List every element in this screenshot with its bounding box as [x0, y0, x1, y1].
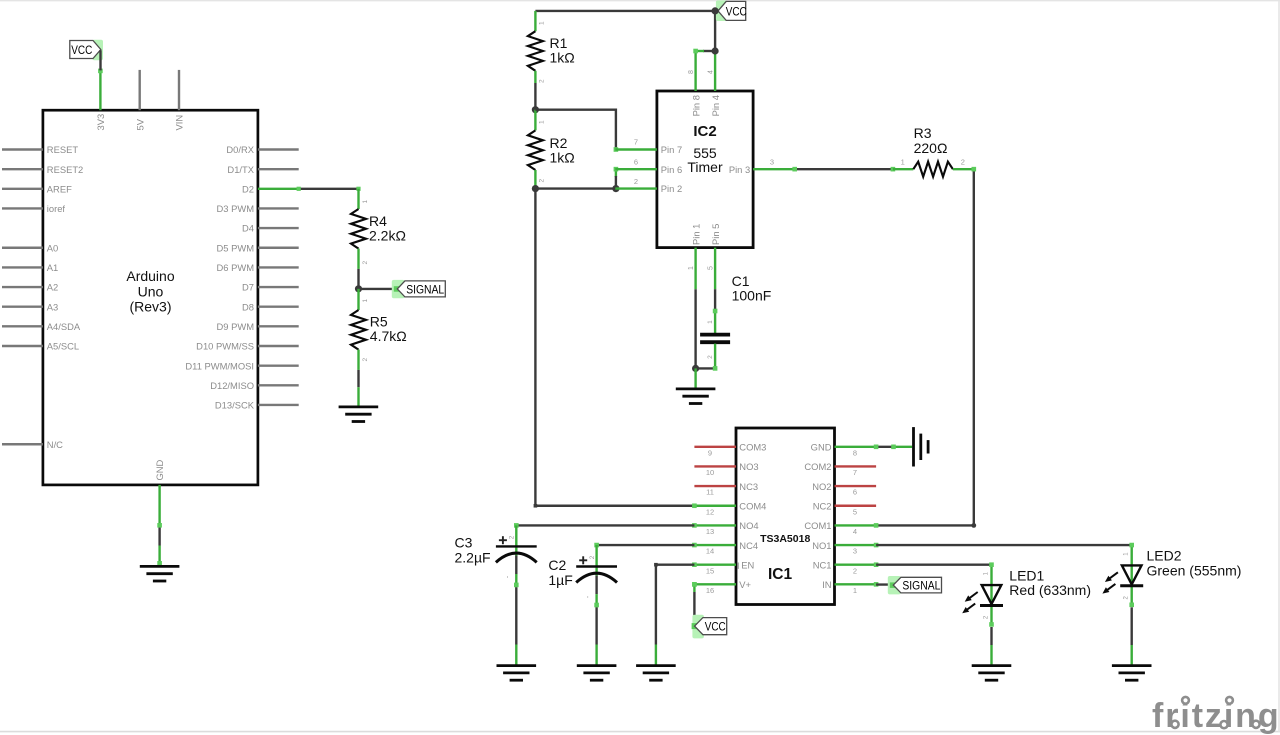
ground (IC1 GND, rotated) — [912, 427, 915, 466]
svg-text:D9 PWM: D9 PWM — [217, 321, 255, 332]
svg-text:D5 PWM: D5 PWM — [217, 242, 255, 253]
capacitor C3 2.2µF (polarized) — [455, 525, 537, 587]
Arduino pin D0/RX — [226, 144, 298, 155]
resistor R1 1kΩ — [528, 11, 575, 83]
IC1 pin 11 NC3 — [694, 481, 758, 497]
svg-text:COM3: COM3 — [739, 442, 766, 453]
svg-text:2: 2 — [853, 566, 857, 575]
power flag VCC (555) — [716, 0, 747, 21]
wire IC1 GND to ground — [876, 446, 893, 448]
wire D2 to R4 — [299, 188, 359, 190]
svg-text:A1: A1 — [47, 262, 58, 273]
wire R4 to node SIGNAL — [357, 269, 359, 289]
svg-text:D8: D8 — [242, 301, 254, 312]
LED1 Red (633nm) — [962, 562, 1091, 626]
svg-text:VIN: VIN — [174, 115, 185, 131]
svg-text:A2: A2 — [47, 282, 58, 293]
svg-text:-: - — [585, 595, 592, 598]
svg-text:1: 1 — [853, 586, 857, 595]
svg-text:D6 PWM: D6 PWM — [217, 262, 255, 273]
svg-text:R2: R2 — [550, 135, 568, 151]
svg-text:14: 14 — [706, 547, 714, 556]
svg-text:2: 2 — [1124, 595, 1130, 599]
wire IC1 IN to SIGNAL flag — [876, 583, 893, 585]
Arduino pin A2 — [2, 282, 58, 293]
op-amp/timer IC2 555 body — [657, 91, 753, 248]
svg-text:220Ω: 220Ω — [914, 140, 948, 156]
svg-text:D7: D7 — [242, 282, 254, 293]
svg-text:VCC: VCC — [726, 6, 747, 18]
IC2 Pin 2 — [615, 177, 682, 194]
Arduino pin N/C — [2, 439, 63, 450]
wire 555 Pin 5 to C1 — [714, 289, 716, 310]
power flag VCC (IC1) — [692, 615, 727, 639]
Arduino pin AREF — [2, 183, 72, 194]
svg-text:2: 2 — [983, 615, 989, 619]
IC1 pin 10 NO3 — [694, 461, 758, 477]
svg-text:D1/TX: D1/TX — [227, 164, 254, 175]
Arduino pin 5V — [134, 70, 145, 131]
svg-text:NC1: NC1 — [813, 559, 832, 570]
Arduino pin ioref — [2, 203, 65, 214]
svg-text:NO4: NO4 — [739, 520, 758, 531]
wire IC1 V+ to VCC — [693, 584, 695, 592]
svg-text:IC2: IC2 — [693, 123, 716, 140]
IC1 pin 16 V+ — [692, 579, 751, 595]
svg-text:-: - — [505, 575, 512, 578]
IC1 pin 15 EN — [692, 559, 754, 575]
wire R1 to R2 — [534, 83, 536, 110]
IC2 Pin 4 — [707, 51, 721, 116]
ground (C2) — [577, 664, 617, 667]
Arduino pin D9 PWM — [217, 321, 299, 332]
svg-text:A0: A0 — [47, 242, 58, 253]
IC1 pin 13 NO4 — [692, 520, 758, 536]
svg-text:D10 PWM/SS: D10 PWM/SS — [196, 341, 254, 352]
IC1 pin 2 NC1 — [813, 559, 879, 575]
IC2 Pin 3 — [729, 157, 795, 174]
Arduino pin D5 PWM — [217, 242, 299, 253]
Arduino pin D13/SCK — [215, 400, 299, 411]
svg-text:C2: C2 — [548, 557, 566, 573]
wire R2 bottom to 555 Pin 2 — [535, 187, 615, 189]
Arduino pin A5/SCL — [2, 341, 79, 352]
resistor R4 2.2kΩ — [351, 189, 406, 269]
IC2 Pin 1 — [688, 224, 702, 290]
ground (555/C1) — [676, 387, 716, 390]
svg-text:1kΩ: 1kΩ — [550, 150, 575, 166]
Arduino pin A3 — [2, 301, 58, 312]
svg-text:SIGNAL: SIGNAL — [902, 581, 941, 593]
svg-text:1: 1 — [901, 157, 905, 166]
net label SIGNAL (right) — [888, 576, 942, 594]
svg-text:12: 12 — [706, 507, 714, 516]
svg-text:V+: V+ — [739, 579, 751, 590]
svg-text:8: 8 — [688, 70, 695, 74]
wire 555 Pin 6 down to Pin 2 net — [615, 169, 617, 177]
wire R2 node to IC1 COM4 — [535, 189, 694, 506]
svg-text:A5/SCL: A5/SCL — [47, 341, 79, 352]
svg-text:5: 5 — [853, 507, 857, 516]
svg-text:8: 8 — [853, 448, 857, 457]
Arduino pin D6 PWM — [217, 262, 299, 273]
svg-text:NO3: NO3 — [739, 461, 758, 472]
ground (LED1) — [972, 664, 1012, 667]
svg-text:R3: R3 — [914, 125, 932, 141]
svg-text:1: 1 — [362, 299, 369, 303]
svg-text:LED1: LED1 — [1009, 567, 1044, 583]
IC1 pin 7 COM2 — [804, 461, 876, 477]
power flag VCC (top-left) — [70, 40, 103, 61]
Arduino Uno (Rev3) module body — [43, 110, 258, 485]
junction Pin6/Pin2 — [612, 185, 619, 192]
wire R3 to IC1 COM1 — [876, 169, 974, 525]
capacitor C1 100nF — [700, 273, 771, 369]
svg-text:Arduino: Arduino — [126, 268, 174, 284]
wire GND to ground — [158, 525, 160, 545]
Arduino pin D12/MISO — [210, 380, 298, 391]
svg-text:1µF: 1µF — [548, 572, 572, 588]
svg-text:NC4: NC4 — [739, 540, 758, 551]
wire VCC flag to 3V3 — [99, 50, 101, 70]
svg-text:R5: R5 — [370, 313, 388, 329]
svg-text:4: 4 — [707, 70, 714, 74]
Arduino pin D1/TX — [227, 164, 298, 175]
ground (C3) — [497, 664, 537, 667]
wire LED2 to ground — [1130, 607, 1132, 645]
IC2 Pin 6 — [615, 157, 682, 174]
svg-text:1: 1 — [539, 21, 546, 25]
wire C1 to ground node — [696, 367, 716, 369]
svg-text:2: 2 — [634, 177, 638, 186]
IC1 pin 1 IN — [822, 579, 878, 595]
svg-text:2: 2 — [362, 261, 369, 265]
svg-text:2: 2 — [707, 355, 714, 359]
svg-text:5: 5 — [707, 266, 714, 270]
svg-text:1: 1 — [688, 266, 695, 270]
analog switch IC1 TS3A5018 body — [736, 428, 835, 605]
svg-text:7: 7 — [853, 468, 857, 477]
svg-text:2.2kΩ: 2.2kΩ — [369, 228, 406, 244]
wire junction to ground — [694, 368, 696, 388]
wire LED1 to ground — [990, 627, 992, 645]
svg-text:ioref: ioref — [47, 203, 66, 214]
IC2 Pin 8 — [688, 51, 702, 116]
IC1 pin 3 NO1 — [812, 540, 878, 556]
fritzing watermark — [1152, 694, 1280, 735]
svg-text:D3 PWM: D3 PWM — [217, 203, 255, 214]
svg-text:NC3: NC3 — [739, 481, 758, 492]
svg-text:NO1: NO1 — [812, 540, 831, 551]
svg-text:COM2: COM2 — [804, 461, 831, 472]
wire R1/R2 node to 555 Pin 7 — [535, 110, 616, 150]
svg-text:Pin 5: Pin 5 — [710, 224, 721, 245]
Arduino pin D10 PWM/SS — [196, 341, 299, 352]
svg-text:TS3A5018: TS3A5018 — [760, 533, 810, 545]
Arduino pin VIN — [174, 70, 185, 131]
ground (R5) — [339, 405, 379, 408]
ground (LED2) — [1112, 664, 1152, 667]
svg-text:5V: 5V — [134, 118, 145, 130]
svg-text:15: 15 — [706, 566, 714, 575]
wire VCC to 555 pins 8/4 — [714, 11, 716, 51]
svg-text:2: 2 — [961, 157, 965, 166]
svg-text:7: 7 — [634, 138, 638, 147]
svg-text:GND: GND — [154, 459, 165, 480]
Arduino pin D4 — [242, 223, 299, 234]
IC1 pin 5 NC2 — [813, 500, 876, 516]
wire 555 Pin 1 down — [694, 289, 696, 368]
svg-text:D0/RX: D0/RX — [226, 144, 254, 155]
Arduino pin A0 — [2, 242, 58, 253]
svg-text:13: 13 — [706, 527, 714, 536]
Arduino pin D8 — [242, 301, 299, 312]
wire IC1 NC4 to C2 — [598, 544, 695, 546]
svg-text:Timer: Timer — [687, 159, 723, 175]
svg-text:N/C: N/C — [47, 439, 63, 450]
svg-text:Pin 8: Pin 8 — [690, 95, 701, 116]
svg-text:1: 1 — [707, 320, 714, 324]
svg-text:2: 2 — [510, 535, 516, 539]
svg-text:Uno: Uno — [138, 283, 164, 299]
net label SIGNAL (left) — [392, 280, 446, 298]
IC1 pin 14 NC4 — [692, 540, 758, 556]
svg-text:2: 2 — [539, 179, 546, 183]
svg-text:3: 3 — [770, 157, 774, 166]
svg-text:NO2: NO2 — [812, 481, 831, 492]
svg-text:6: 6 — [853, 488, 857, 497]
svg-text:1: 1 — [362, 200, 369, 204]
LED2 Green (555nm) — [1102, 543, 1241, 607]
svg-text:D12/MISO: D12/MISO — [210, 380, 254, 391]
svg-text:10: 10 — [706, 468, 714, 477]
svg-text:IC1: IC1 — [768, 566, 793, 583]
Arduino pin GND — [154, 459, 165, 525]
junction pin8/pin4 — [712, 47, 719, 54]
Arduino pin A4/SDA — [2, 321, 81, 332]
svg-text:16: 16 — [706, 586, 714, 595]
svg-text:2.2µF: 2.2µF — [455, 549, 491, 565]
Arduino pin RESET2 — [2, 164, 83, 175]
svg-text:VCC: VCC — [71, 45, 92, 57]
svg-text:RESET: RESET — [47, 144, 79, 155]
svg-text:RESET2: RESET2 — [47, 164, 83, 175]
svg-text:A4/SDA: A4/SDA — [47, 321, 81, 332]
Arduino pin D2 — [242, 183, 299, 194]
svg-text:NC2: NC2 — [813, 500, 832, 511]
Arduino pin 3V3 — [95, 69, 106, 131]
svg-text:4.7kΩ: 4.7kΩ — [370, 328, 407, 344]
wire IC1 EN to ground — [656, 565, 695, 645]
resistor R5 4.7kΩ — [351, 289, 407, 370]
svg-text:3V3: 3V3 — [95, 114, 106, 131]
svg-text:fritzing: fritzing — [1152, 697, 1280, 735]
Arduino pin D11 PWM/MOSI — [185, 360, 298, 371]
junction VCC rail — [712, 7, 719, 14]
svg-text:3: 3 — [853, 547, 857, 556]
svg-text:A3: A3 — [47, 301, 58, 312]
svg-text:(Rev3): (Rev3) — [129, 299, 171, 315]
svg-text:9: 9 — [708, 448, 712, 457]
Arduino pin D7 — [242, 282, 299, 293]
svg-text:Pin 2: Pin 2 — [661, 183, 682, 194]
svg-text:6: 6 — [634, 157, 638, 166]
svg-text:2: 2 — [362, 358, 369, 362]
svg-text:Pin 7: Pin 7 — [661, 144, 682, 155]
wire VCC rail top — [535, 10, 715, 12]
wire C2 to ground — [595, 607, 597, 644]
IC1 pin 12 COM4 — [692, 500, 766, 516]
junction R4/R5/SIGNAL — [355, 285, 362, 292]
IC1 pin 6 NO2 — [812, 481, 876, 497]
wire junction to SIGNAL flag — [359, 288, 398, 290]
svg-text:AREF: AREF — [47, 183, 72, 194]
svg-text:Pin 1: Pin 1 — [690, 224, 701, 245]
svg-text:LED2: LED2 — [1147, 548, 1182, 564]
IC2 Pin 5 — [707, 224, 721, 290]
svg-text:D4: D4 — [242, 223, 254, 234]
svg-text:D11 PWM/MOSI: D11 PWM/MOSI — [185, 360, 254, 371]
resistor R2 1kΩ — [528, 110, 575, 189]
Arduino pin A1 — [2, 262, 58, 273]
svg-text:11: 11 — [706, 488, 714, 497]
svg-text:SIGNAL: SIGNAL — [406, 284, 445, 296]
svg-text:100nF: 100nF — [732, 288, 772, 304]
svg-text:C1: C1 — [732, 273, 750, 289]
wire IC1 NO4 to C3 — [518, 524, 695, 526]
svg-text:Pin 6: Pin 6 — [661, 164, 682, 175]
svg-text:D13/SCK: D13/SCK — [215, 400, 255, 411]
junction R1/R2 — [532, 106, 539, 113]
ground (Arduino GND) — [140, 565, 180, 568]
svg-text:4: 4 — [853, 527, 857, 536]
svg-text:1kΩ: 1kΩ — [550, 50, 575, 66]
svg-text:VCC: VCC — [705, 622, 726, 634]
svg-text:EN: EN — [741, 559, 754, 570]
svg-text:Green (555nm): Green (555nm) — [1147, 562, 1242, 578]
IC1 pin 8 GND — [811, 442, 876, 458]
wire C3 to ground — [515, 587, 517, 644]
junction Pin1/C1/ground — [692, 365, 699, 372]
Arduino pin D3 PWM — [217, 203, 299, 214]
svg-text:1: 1 — [983, 571, 989, 575]
wire IC1 NC1 to LED1 — [876, 564, 991, 566]
IC1 pin 4 COM1 — [804, 520, 878, 536]
svg-text:GND: GND — [811, 442, 832, 453]
svg-text:C3: C3 — [455, 535, 473, 551]
ground (EN) — [636, 664, 676, 667]
svg-text:Pin 3: Pin 3 — [729, 164, 750, 175]
svg-text:Red (633nm): Red (633nm) — [1009, 582, 1091, 598]
Arduino pin RESET — [2, 144, 78, 155]
svg-text:2: 2 — [539, 79, 546, 83]
svg-text:COM1: COM1 — [804, 520, 831, 531]
svg-text:Pin 4: Pin 4 — [710, 95, 721, 116]
svg-text:IN: IN — [822, 579, 831, 590]
resistor R3 220Ω — [893, 125, 974, 177]
IC1 pin 9 COM3 — [694, 442, 766, 458]
junction R2 bottom — [532, 185, 539, 192]
wire 555 Pin 3 to R3 — [795, 168, 893, 170]
svg-text:R1: R1 — [550, 35, 568, 51]
wire IC1 NO1 to LED2 — [876, 544, 1132, 546]
svg-text:COM4: COM4 — [739, 500, 766, 511]
wire R5 to ground — [357, 370, 359, 387]
svg-text:R4: R4 — [369, 213, 387, 229]
capacitor C2 1µF (polarized) — [548, 545, 617, 607]
svg-text:D2: D2 — [242, 183, 254, 194]
svg-text:1: 1 — [539, 120, 546, 124]
IC2 Pin 7 — [615, 138, 682, 156]
svg-text:2: 2 — [590, 555, 596, 559]
svg-text:1: 1 — [1124, 552, 1130, 556]
